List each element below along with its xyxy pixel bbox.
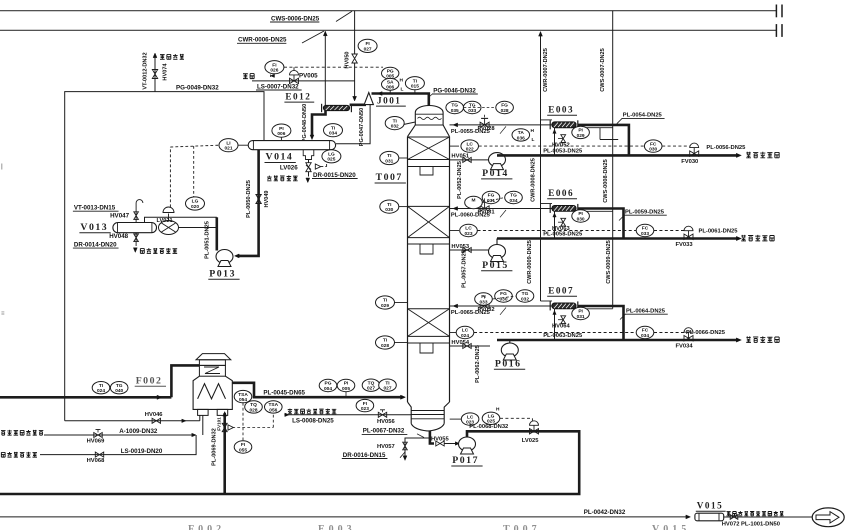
svg-text:HV072 PL-1001-DN50: HV072 PL-1001-DN50 — [722, 521, 780, 527]
svg-text:028: 028 — [381, 343, 389, 349]
svg-text:PI: PI — [481, 294, 486, 300]
svg-text:TG: TG — [510, 193, 517, 199]
control valve LV025 — [530, 429, 539, 434]
svg-text:PL-0056-DN25: PL-0056-DN25 — [706, 145, 746, 151]
svg-text:DR-0015-DN20: DR-0015-DN20 — [313, 172, 356, 179]
svg-text:PL-0055-DN25: PL-0055-DN25 — [451, 129, 491, 135]
svg-text:054: 054 — [239, 397, 247, 403]
instrument TI-030 — [380, 200, 399, 213]
ejector J001 — [364, 93, 373, 105]
instrument TSA-056 — [265, 401, 283, 413]
heat-exchanger E003 — [552, 122, 576, 128]
svg-text:FC: FC — [642, 328, 649, 334]
svg-text:HV054: HV054 — [451, 340, 470, 346]
pump P016 — [501, 343, 518, 357]
svg-text:CWR-0006-DN25: CWR-0006-DN25 — [238, 37, 287, 44]
break symbol header 1 — [775, 5, 777, 18]
svg-text:HV052: HV052 — [552, 142, 570, 148]
wire dashed level signal module 15 — [478, 230, 637, 232]
wire CWS-0007 drop — [612, 11, 614, 309]
svg-text:FV034: FV034 — [676, 343, 694, 349]
svg-text:HV074: HV074 — [163, 63, 169, 81]
furnace F002 stack — [199, 360, 225, 366]
svg-text:HV056: HV056 — [377, 419, 396, 425]
svg-text:024: 024 — [461, 333, 469, 339]
svg-text:TG: TG — [522, 291, 529, 297]
svg-text:FI: FI — [241, 442, 246, 448]
column T007 shell — [407, 137, 409, 402]
vessel V013 — [113, 223, 157, 233]
svg-text:P016: P016 — [495, 359, 522, 370]
node steam source 蒸汽 — [243, 74, 248, 79]
instrument LC-023 — [450, 230, 460, 232]
wire CWR stub E007 — [541, 300, 553, 302]
svg-text:M: M — [472, 198, 476, 204]
svg-text:056: 056 — [269, 407, 277, 413]
arrow into column module 16 — [453, 304, 458, 308]
wire dashed level signal module 16 — [474, 332, 636, 334]
svg-text:030: 030 — [385, 207, 393, 213]
valve FV101 — [222, 423, 227, 431]
wire product line module 14 — [497, 154, 737, 157]
svg-text:LS-0008-DN25: LS-0008-DN25 — [292, 417, 334, 424]
wire HV052 riser into exchanger — [554, 128, 556, 156]
svg-text:E003: E003 — [318, 524, 356, 530]
wire fuel line HV046 — [65, 420, 200, 422]
column packing bed 3 — [408, 308, 450, 310]
svg-text:V015: V015 — [697, 500, 723, 510]
svg-text:033: 033 — [641, 231, 649, 237]
svg-text:TI: TI — [387, 202, 392, 208]
svg-text:HV046: HV046 — [145, 412, 164, 418]
svg-text:LV021: LV021 — [157, 218, 173, 224]
svg-text:029: 029 — [381, 303, 389, 309]
svg-text:020: 020 — [191, 204, 199, 210]
svg-text:030: 030 — [649, 147, 657, 153]
svg-text:PG: PG — [387, 68, 394, 74]
instrument FI-023 — [356, 399, 374, 411]
furnace F002 radiant box — [193, 376, 232, 409]
svg-text:FI: FI — [363, 401, 368, 407]
svg-text:PL-0063-DN25: PL-0063-DN25 — [543, 333, 583, 339]
wire CWS jog E003 — [599, 128, 601, 140]
svg-text:024: 024 — [97, 388, 105, 394]
svg-text:LS-0019-DN20: LS-0019-DN20 — [121, 448, 163, 455]
instrument LI-021 — [219, 139, 238, 152]
svg-text:PL-0057-DN25: PL-0057-DN25 — [461, 250, 467, 288]
instrument PI-006 — [272, 124, 291, 137]
svg-text:005: 005 — [342, 386, 350, 392]
column T007 dome — [415, 105, 443, 125]
mixer V015 — [695, 513, 724, 521]
svg-text:LG: LG — [192, 199, 199, 205]
valve HV046 — [152, 418, 160, 423]
svg-text:036: 036 — [517, 135, 525, 141]
svg-text:H: H — [400, 78, 404, 84]
svg-text:FI: FI — [272, 62, 277, 68]
svg-text:PL-0062-DN25: PL-0062-DN25 — [475, 345, 481, 383]
svg-text:T007: T007 — [376, 172, 403, 183]
svg-text:PG-0046-DN32: PG-0046-DN32 — [433, 87, 476, 94]
break symbol header 2 — [775, 24, 777, 37]
svg-text:PL-0058-DN25: PL-0058-DN25 — [543, 232, 583, 238]
arrow PL-0042 — [686, 515, 691, 519]
svg-text:022: 022 — [466, 147, 474, 153]
svg-text:PI: PI — [578, 211, 583, 217]
svg-text:FV033: FV033 — [676, 242, 694, 248]
suction valve HV053 — [463, 248, 471, 253]
svg-text:HV053: HV053 — [451, 244, 470, 250]
wire HV064 riser into exchanger — [554, 309, 556, 340]
wire dashed furnace signals — [242, 403, 244, 428]
wire dashed level signal module 14 — [479, 145, 645, 147]
svg-text:TQ: TQ — [368, 380, 375, 386]
wire return line into column (PL-0060-DN25) — [450, 208, 553, 210]
instrument FI-055 — [234, 441, 252, 453]
svg-text:E006: E006 — [548, 188, 574, 198]
column distributor box 3 — [408, 342, 450, 344]
wire dashed LG-025 to flag — [321, 166, 327, 168]
svg-text:006: 006 — [277, 131, 285, 137]
svg-text:H: H — [496, 407, 500, 413]
wire LI-021 stub — [238, 144, 248, 146]
svg-text:LG: LG — [488, 414, 495, 420]
svg-text:≡: ≡ — [1, 311, 5, 317]
wire V013 overhead line PL-0051 — [145, 217, 217, 222]
node product-out tag module 14 — [746, 152, 751, 158]
instrument circles module 15 — [465, 196, 483, 208]
furnace F002 stack hat — [196, 354, 231, 360]
arrow transfer into column — [401, 395, 406, 399]
svg-text:P014: P014 — [482, 168, 509, 179]
wire E012 to J001 (thick) — [350, 104, 366, 107]
svg-text:HV047: HV047 — [110, 213, 129, 220]
wire LV021 outlet — [179, 227, 217, 229]
svg-text:PG-0049-DN32: PG-0049-DN32 — [176, 84, 219, 91]
flag spec break LV026 — [315, 164, 320, 169]
wire V015 outlet — [724, 516, 813, 518]
wire CWR riser x325 — [324, 32, 326, 107]
furnace F002 convection section — [199, 365, 225, 376]
svg-text:HV051: HV051 — [451, 153, 470, 159]
leader CWR label — [302, 31, 324, 43]
svg-text:031: 031 — [385, 158, 393, 164]
svg-text:PL-0065-DN25: PL-0065-DN25 — [451, 310, 491, 316]
valve HV055 — [436, 441, 444, 446]
wire PL-0051 drop to P013 — [216, 217, 219, 250]
wire return line into column (PL-0065-DN25) — [450, 305, 553, 307]
instrument TI-031 — [380, 151, 399, 164]
svg-text:E003: E003 — [548, 104, 574, 114]
svg-text:023: 023 — [361, 406, 369, 412]
arrow air line — [192, 433, 196, 437]
instrument TQ-027 — [362, 379, 380, 391]
svg-text:DR-0016-DN15: DR-0016-DN15 — [343, 452, 386, 459]
svg-text:027: 027 — [383, 386, 391, 392]
heat-exchanger E006 — [552, 206, 576, 212]
wire stub instruments to J001 line — [389, 90, 391, 93]
svg-text:LV025: LV025 — [522, 438, 539, 444]
svg-text:015: 015 — [411, 84, 419, 90]
svg-text:PL-0052-DN25: PL-0052-DN25 — [457, 161, 463, 199]
arrow up vent — [153, 53, 157, 58]
arrow up CWR riser — [323, 31, 327, 36]
furnace F002 legs — [198, 409, 209, 415]
svg-text:PL-0066-DN25: PL-0066-DN25 — [686, 330, 726, 336]
instrument FI-026 — [265, 61, 284, 74]
arrow product module 14 — [736, 153, 741, 157]
svg-text:PL-0061-DN25: PL-0061-DN25 — [699, 228, 739, 234]
column distributor box 2 — [408, 243, 450, 245]
instrument TSA-054 — [234, 390, 252, 402]
instrument LC-024 — [450, 332, 460, 334]
pump P017 — [459, 437, 476, 451]
wire suction from column module 16 — [450, 345, 491, 347]
svg-text:055: 055 — [239, 447, 247, 453]
svg-text:P017: P017 — [452, 455, 479, 466]
svg-text:023: 023 — [464, 231, 472, 237]
wire CWS stub E007 — [576, 308, 613, 310]
wire V013 vent gooseneck — [135, 203, 137, 223]
node 混合原料至原料缓冲罐 tag — [727, 512, 731, 516]
wire CWR stub E006 — [541, 203, 553, 205]
svg-text:HV048: HV048 — [109, 233, 128, 240]
pump P014 — [489, 153, 506, 167]
svg-text:PL-0064-DN25: PL-0064-DN25 — [626, 309, 666, 315]
svg-text:PG: PG — [325, 381, 332, 387]
arrow LS-0008 start — [285, 413, 289, 417]
vessel V014 — [248, 141, 335, 150]
wire steam line LS-0019 — [40, 435, 196, 455]
instrument PI-030 — [572, 210, 590, 222]
wire drain HV057 — [405, 438, 430, 456]
wire HV063 riser into exchanger — [554, 211, 556, 238]
wire CWR-0006 header — [0, 29, 776, 31]
arrow up into E006 — [553, 213, 556, 217]
wire LS-0007 steam line — [252, 80, 355, 82]
svg-text:040: 040 — [115, 388, 123, 394]
instrument LG-025 bottoms — [482, 412, 500, 424]
svg-text:F002: F002 — [136, 376, 163, 387]
instrument LG-025 — [322, 150, 341, 163]
control valve FV033 — [684, 234, 693, 239]
svg-text:035: 035 — [451, 108, 459, 114]
instrument PI-031 — [572, 307, 590, 319]
valve HV048 drain — [135, 233, 137, 246]
node 事故放空 vent tag — [160, 55, 165, 60]
svg-text:J001: J001 — [377, 95, 401, 105]
wire exchanger outlet to product (PL-0059-DN25) — [578, 209, 624, 239]
wire transfer line PL-0045 — [232, 383, 403, 397]
svg-text:HV068: HV068 — [87, 458, 106, 464]
svg-text:E012: E012 — [285, 91, 311, 101]
leader CWS label — [336, 11, 352, 21]
svg-text:PV005: PV005 — [299, 73, 318, 80]
node product-out tag module 15 — [741, 235, 746, 241]
arrow HV046 line — [182, 419, 186, 423]
instrument LC-022 — [450, 145, 460, 147]
valve HV063 — [561, 218, 566, 226]
arrow up into E007 — [553, 311, 556, 315]
svg-text:006: 006 — [386, 85, 394, 91]
svg-text:PL-0069-DN32: PL-0069-DN32 — [211, 428, 217, 466]
svg-text:TG: TG — [451, 103, 458, 109]
svg-text:FG: FG — [501, 103, 508, 109]
instrument TI-032 dome — [385, 117, 404, 130]
svg-text:LS-0007-DN32: LS-0007-DN32 — [257, 83, 299, 90]
valve HV050 — [352, 54, 357, 63]
valve HV064 — [561, 316, 566, 324]
arrow up into E003 — [553, 129, 556, 133]
instrument TI-015 — [405, 77, 424, 90]
instrument SA-006 with H/L — [382, 78, 399, 90]
instrument FC-034 — [636, 326, 654, 338]
svg-text:033: 033 — [479, 299, 487, 305]
suction valve HV054 — [463, 344, 471, 349]
svg-text:026: 026 — [270, 68, 278, 74]
svg-text:LC: LC — [466, 141, 473, 147]
wire dashed drop to PV005 actuator — [293, 67, 295, 72]
control valve FV034 — [684, 336, 693, 341]
svg-text:TI: TI — [393, 118, 398, 124]
wire PI-006 stub — [280, 137, 282, 140]
svg-text:VT-0012-DN32: VT-0012-DN32 — [143, 52, 149, 89]
wire CWS drop x354.6 — [354, 11, 356, 54]
instrument TI-024 — [92, 382, 110, 394]
svg-text:031: 031 — [577, 314, 585, 320]
svg-text:P013: P013 — [209, 269, 236, 280]
svg-text:HV064: HV064 — [552, 323, 571, 329]
pump P013 — [216, 250, 233, 264]
svg-text:034: 034 — [641, 333, 649, 339]
suction valve HV051 — [463, 157, 471, 162]
arrow drain DR-0016 — [403, 456, 407, 461]
wire dashed instrument link module 16 — [493, 296, 517, 299]
arrow product module 16 — [736, 338, 741, 342]
svg-text:E007: E007 — [548, 286, 574, 296]
instrument FC-030 — [644, 140, 662, 152]
svg-text:CWS-0007-DN25: CWS-0007-DN25 — [600, 48, 606, 92]
instrument TI-034 — [324, 124, 343, 137]
svg-text:L: L — [401, 87, 404, 93]
svg-text:CWR-0008-DN25: CWR-0008-DN25 — [531, 158, 537, 202]
valve HV072 — [730, 515, 738, 520]
instrument PG-005 — [382, 67, 399, 79]
heat-exchanger E007 — [552, 303, 576, 309]
svg-text:032: 032 — [391, 124, 399, 130]
wire CWR stub E003 — [541, 119, 553, 121]
control valve FV028 — [480, 122, 489, 127]
arrow drain down V014 — [306, 178, 310, 183]
column packing bed 2 — [408, 205, 450, 207]
node 蒸汽来自蒸汽总管 tag — [288, 409, 293, 414]
svg-text:PL-0054-DN25: PL-0054-DN25 — [623, 113, 663, 119]
svg-text:V013: V013 — [80, 222, 108, 233]
svg-text:TI: TI — [385, 380, 390, 386]
arrow up PL-0069 into furnace leg — [223, 412, 227, 417]
svg-text:TI: TI — [413, 78, 418, 84]
svg-text:PI: PI — [279, 126, 284, 132]
instrument LC-023 bottoms — [461, 413, 479, 425]
svg-text:032: 032 — [521, 296, 529, 302]
instrument TG-040 — [110, 382, 128, 394]
svg-text:LV026: LV026 — [280, 165, 298, 172]
svg-text:PG-0047-DN50: PG-0047-DN50 — [359, 108, 365, 147]
svg-text:H: H — [531, 128, 535, 134]
svg-text:TSA: TSA — [238, 392, 248, 398]
wire feed riser to convection — [171, 365, 199, 397]
svg-text:028: 028 — [501, 108, 509, 114]
valve HV068 — [95, 452, 103, 457]
valve HV049 — [256, 195, 261, 204]
svg-text:FC: FC — [642, 226, 649, 232]
arrow drain V013 — [133, 248, 137, 253]
svg-text:029: 029 — [577, 133, 585, 139]
svg-text:TI: TI — [99, 383, 104, 389]
instrument TI-028 — [376, 336, 395, 349]
wire dashed to FV033 — [654, 230, 689, 232]
wire vent riser VT-0012 — [154, 56, 156, 92]
instrument FC-033 — [636, 224, 654, 236]
svg-text:P015: P015 — [482, 260, 509, 271]
valve HV074 — [152, 70, 157, 79]
wire steam line LS-0008 — [284, 414, 411, 416]
column packing bed 1 — [408, 136, 450, 138]
furnace F002 burner flame W — [198, 384, 226, 399]
control valve FV030 — [690, 151, 699, 156]
svg-text:PL-0051-DN25: PL-0051-DN25 — [205, 221, 211, 259]
svg-text:CWS-0009-DN25: CWS-0009-DN25 — [606, 240, 612, 284]
valve HV069 — [94, 433, 102, 438]
control valve FV032 — [480, 303, 489, 308]
wire stub TI-015 — [414, 90, 416, 94]
wire CWS stub E006 — [576, 210, 613, 212]
svg-text:V015: V015 — [652, 524, 690, 530]
svg-text:LC: LC — [465, 226, 472, 232]
instrument TI-029 — [376, 296, 395, 309]
svg-text:CWS-0006-DN25: CWS-0006-DN25 — [271, 15, 320, 22]
wire dashed to FV034 — [654, 332, 689, 334]
node 减顶油出装置 tag — [140, 249, 144, 254]
svg-text:LG: LG — [328, 152, 335, 158]
wire CWS stub E003 — [576, 127, 613, 129]
svg-text:TI: TI — [387, 153, 392, 159]
svg-text:SA: SA — [387, 80, 394, 86]
valve HV047 — [134, 212, 139, 220]
svg-text:PI: PI — [578, 309, 583, 315]
svg-text:PG-0048-DN50: PG-0048-DN50 — [302, 104, 308, 143]
valve HV056 — [378, 412, 386, 417]
svg-text:PL-0060-DN25: PL-0060-DN25 — [451, 213, 491, 219]
svg-text:PL-0053-DN25: PL-0053-DN25 — [543, 149, 583, 155]
wire PL-0050 V014 bottoms to P013 — [237, 150, 259, 256]
svg-text:LC: LC — [462, 328, 469, 334]
svg-text:FV101: FV101 — [216, 417, 221, 431]
instrument TA-036 H/L — [512, 129, 530, 141]
svg-text:LI: LI — [226, 140, 231, 146]
svg-text:PL-0050-DN25: PL-0050-DN25 — [246, 180, 252, 218]
arrow product module 15 — [736, 236, 741, 240]
svg-text:CWR-0009-DN25: CWR-0009-DN25 — [527, 240, 533, 284]
svg-text:FI: FI — [365, 41, 370, 47]
svg-text:TG: TG — [116, 383, 123, 389]
arrow down PG-0048 into V014 — [310, 135, 314, 140]
svg-text:PL-0042-DN32: PL-0042-DN32 — [584, 509, 626, 516]
svg-text:PI: PI — [578, 128, 583, 134]
wire left leg drop — [202, 415, 204, 435]
arrow up CWR-0007 — [539, 32, 543, 37]
svg-text:TI: TI — [383, 298, 388, 304]
